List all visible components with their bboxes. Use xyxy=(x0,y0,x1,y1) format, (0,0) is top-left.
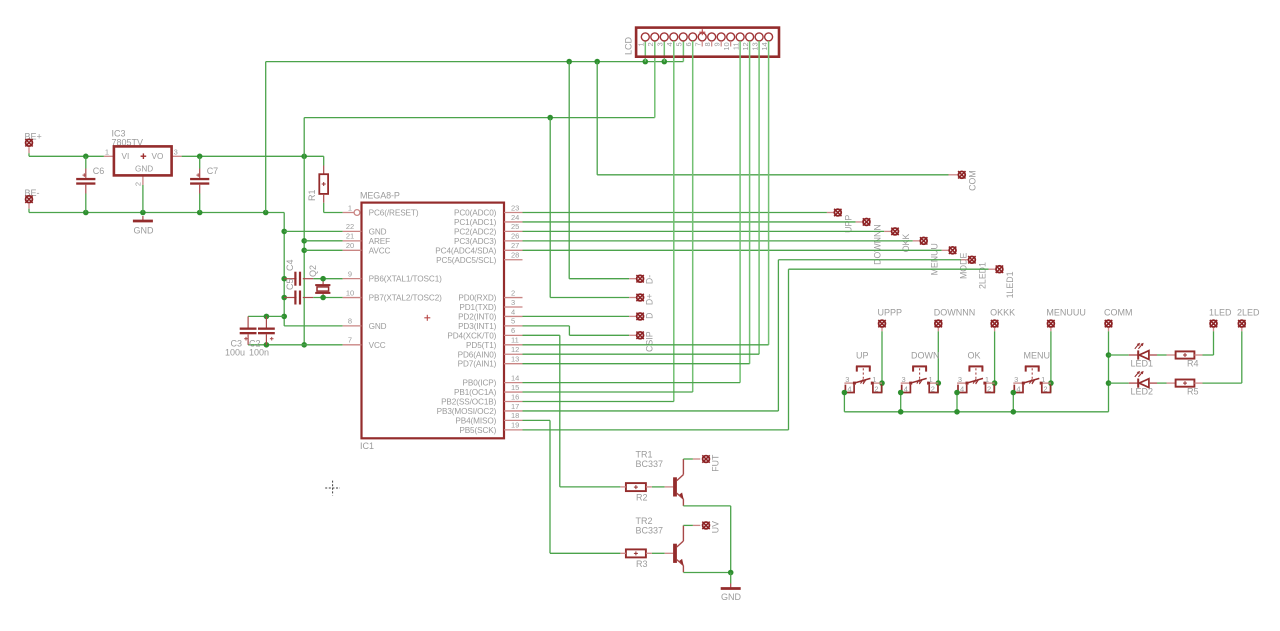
wire MENUU xyxy=(523,240,913,242)
junction C2 bottom xyxy=(264,342,270,348)
svg-text:C7: C7 xyxy=(207,166,219,176)
svg-text:PB1(OC1A): PB1(OC1A) xyxy=(454,388,497,397)
svg-text:R3: R3 xyxy=(636,559,648,569)
svg-text:D: D xyxy=(645,313,655,319)
junction GND C4 xyxy=(281,276,287,282)
junction Q2 bottom xyxy=(320,295,326,301)
svg-text:100n: 100n xyxy=(249,348,269,358)
transistor TR2 BC337 xyxy=(665,552,674,554)
wire 1LED to R4 xyxy=(1213,331,1215,355)
svg-text:5: 5 xyxy=(674,42,683,46)
svg-text:R1: R1 xyxy=(307,189,317,201)
svg-text:PD2(INT0): PD2(INT0) xyxy=(458,312,497,321)
wire D from pin4 xyxy=(523,315,630,317)
diode LED1 xyxy=(1109,354,1129,356)
LCD pad 1 xyxy=(641,33,649,41)
junction GND C5 xyxy=(281,295,287,301)
IC1 pin 3 PD1(TXD) xyxy=(504,306,523,308)
svg-text:OK: OK xyxy=(968,351,981,361)
svg-text:1: 1 xyxy=(348,203,352,212)
svg-text:IC1: IC1 xyxy=(360,441,374,451)
svg-text:R5: R5 xyxy=(1187,387,1199,397)
svg-text:17: 17 xyxy=(511,402,519,411)
svg-text:BC337: BC337 xyxy=(636,459,664,469)
wire LCD12 to pin13 xyxy=(749,41,751,364)
svg-text:4: 4 xyxy=(1016,385,1020,394)
IC1 pin 14 PB0(ICP) xyxy=(504,382,523,384)
wire LCD6 to pin15 xyxy=(692,41,694,392)
capacitor C2 100n xyxy=(265,316,267,327)
wire R3 to TR2 base xyxy=(652,552,665,554)
junction AREF xyxy=(301,238,307,244)
LCD pad 9 xyxy=(717,33,725,41)
IC1 pin 21 AREF xyxy=(343,240,362,242)
wire button common rail xyxy=(844,411,1108,413)
svg-text:15: 15 xyxy=(511,383,519,392)
wire LCD pin5 drop xyxy=(682,41,684,62)
svg-text:7: 7 xyxy=(348,336,352,345)
svg-text:3: 3 xyxy=(845,375,849,384)
junction +5V node xyxy=(301,154,307,160)
svg-text:4: 4 xyxy=(847,385,851,394)
svg-text:3: 3 xyxy=(1014,375,1018,384)
resistor R2 xyxy=(626,483,646,491)
pad UPP xyxy=(827,212,834,214)
junction GND C2C3 xyxy=(281,314,287,320)
svg-text:12: 12 xyxy=(511,345,519,354)
svg-text:14: 14 xyxy=(760,42,769,50)
junction VOUT C7 xyxy=(197,154,203,160)
IC1 pin 24 PC1(ADC1) xyxy=(504,221,523,223)
wire TR2 emitter xyxy=(683,572,730,574)
junction OK pin4 xyxy=(954,390,960,396)
junction rail OK xyxy=(954,409,960,415)
junction rail DOWN xyxy=(898,409,904,415)
wire LCD pin3 drop xyxy=(663,41,665,62)
junction UPPP pin1 xyxy=(879,380,885,386)
svg-text:BC337: BC337 xyxy=(636,525,664,535)
svg-text:6: 6 xyxy=(684,42,693,46)
wire D+ xyxy=(549,118,551,298)
svg-text:13: 13 xyxy=(511,355,519,364)
wire VIN rail xyxy=(29,155,104,157)
svg-text:13: 13 xyxy=(750,42,759,50)
svg-text:28: 28 xyxy=(511,251,519,260)
svg-text:PB3(MOSI/OC2): PB3(MOSI/OC2) xyxy=(437,407,497,416)
wire TR1 collector to FUT xyxy=(683,458,693,460)
pad UV xyxy=(693,524,700,526)
LCD pad 4 xyxy=(670,33,678,41)
svg-text:VCC: VCC xyxy=(369,341,386,350)
svg-text:GND: GND xyxy=(369,227,387,236)
crystal Q2 xyxy=(322,279,324,285)
junction OKKK pin1 xyxy=(992,380,998,386)
wire OKK xyxy=(523,230,885,232)
svg-text:19: 19 xyxy=(511,421,519,430)
junction DOWNNN pin1 xyxy=(936,380,942,386)
junction LCD pin3 xyxy=(662,59,668,65)
pad MODE xyxy=(942,249,949,251)
svg-text:PB7(XTAL2/TOSC2): PB7(XTAL2/TOSC2) xyxy=(369,294,443,303)
svg-text:C5: C5 xyxy=(285,278,295,290)
svg-text:10: 10 xyxy=(346,288,354,297)
junction DOWN pin4 xyxy=(898,390,904,396)
wire TR1 emitter rail xyxy=(683,505,730,507)
capacitor C5 xyxy=(284,297,296,299)
LCD pad 13 xyxy=(755,33,763,41)
junction GND pin22 xyxy=(281,229,287,235)
svg-text:COMM: COMM xyxy=(1104,308,1133,318)
svg-text:3: 3 xyxy=(902,375,906,384)
svg-text:11: 11 xyxy=(731,42,740,50)
svg-text:18: 18 xyxy=(511,411,519,420)
LCD pad 12 xyxy=(746,33,754,41)
svg-text:MENUUU: MENUUU xyxy=(1046,308,1086,318)
IC1 pin 27 PC4(ADC4/SDA) xyxy=(504,249,523,251)
svg-text:2: 2 xyxy=(931,385,935,394)
svg-text:4: 4 xyxy=(960,385,964,394)
IC1 pin 13 PD7(AIN1) xyxy=(504,363,523,365)
svg-text:PD3(INT1): PD3(INT1) xyxy=(458,322,497,331)
svg-text:2LED: 2LED xyxy=(1237,308,1260,318)
svg-text:1: 1 xyxy=(985,375,989,384)
wire LCD11 to pin14 xyxy=(739,41,741,383)
IC1 pin 7 VCC xyxy=(343,344,362,346)
IC1 pin 10 PB7(XTAL2/TOSC2) xyxy=(343,297,362,299)
junction LCD pin1 xyxy=(643,59,649,65)
wire UPPP to switch xyxy=(881,331,883,392)
capacitor C3 100u xyxy=(247,316,249,327)
ground symbol GND (IC3) xyxy=(142,216,144,221)
LCD pad 8 xyxy=(708,33,716,41)
svg-text:COM: COM xyxy=(967,170,977,191)
svg-text:2: 2 xyxy=(134,182,143,186)
wire MODE xyxy=(523,249,942,251)
svg-text:GND: GND xyxy=(369,322,387,331)
wire TR2 collector to UV xyxy=(683,524,693,526)
junction emitter GND xyxy=(728,570,734,576)
diode LED2 xyxy=(1109,382,1129,384)
svg-text:D+: D+ xyxy=(645,294,655,306)
wire OK pin4 down xyxy=(956,393,958,412)
svg-text:100u: 100u xyxy=(225,348,245,358)
wire C2C3 top link xyxy=(248,315,284,317)
junction C2 top xyxy=(264,314,270,320)
wire COMM column xyxy=(1108,331,1110,412)
wire OKKK to switch xyxy=(994,331,996,392)
svg-text:UPPP: UPPP xyxy=(878,308,903,318)
junction MENUUU pin1 xyxy=(1048,380,1054,386)
svg-text:1LED: 1LED xyxy=(1209,308,1232,318)
pad 2LED1 xyxy=(961,259,968,261)
wire DOWN pin4 down xyxy=(900,393,902,412)
IC1 pin 9 PB6(XTAL1/TOSC1) xyxy=(343,278,362,280)
svg-text:2: 2 xyxy=(1043,385,1047,394)
svg-text:1: 1 xyxy=(872,375,876,384)
svg-text:6: 6 xyxy=(511,326,515,335)
svg-text:14: 14 xyxy=(511,373,519,382)
wire pin18 to R3 xyxy=(523,419,551,421)
svg-text:4: 4 xyxy=(665,42,674,46)
svg-text:PD6(AIN0): PD6(AIN0) xyxy=(458,350,497,359)
svg-text:FUT: FUT xyxy=(710,454,720,472)
junction +5V D+ branch xyxy=(547,115,553,121)
svg-text:LED2: LED2 xyxy=(1131,387,1154,397)
wire LCD14 to pin11 xyxy=(768,41,770,345)
svg-text:16: 16 xyxy=(511,392,519,401)
IC1 pin 8 GND xyxy=(343,325,362,327)
wire pin6 to R2 xyxy=(523,334,560,336)
svg-text:PB2(SS/OC1B): PB2(SS/OC1B) xyxy=(441,398,497,407)
junction COMM LED1 xyxy=(1106,352,1112,358)
svg-text:PC1(ADC1): PC1(ADC1) xyxy=(454,218,497,227)
wire LCD pin2 drop xyxy=(654,41,656,118)
svg-text:1: 1 xyxy=(105,148,109,157)
svg-text:PD1(TXD): PD1(TXD) xyxy=(459,303,496,312)
pad COM xyxy=(949,174,959,176)
svg-text:MENU: MENU xyxy=(1024,351,1051,361)
svg-text:10: 10 xyxy=(722,42,731,50)
svg-text:VI: VI xyxy=(122,152,130,161)
junction AVCC xyxy=(301,248,307,254)
svg-text:8: 8 xyxy=(348,317,352,326)
svg-text:1: 1 xyxy=(637,42,646,46)
ground symbol GND (TR2) xyxy=(730,584,732,589)
wire R2 to TR1 base xyxy=(652,486,665,488)
pad D xyxy=(629,315,636,317)
svg-text:GND: GND xyxy=(135,165,153,174)
svg-text:PD7(AIN1): PD7(AIN1) xyxy=(458,360,497,369)
IC1 pin 19 PB5(SCK) xyxy=(504,429,523,431)
IC1 pin 4 PD2(INT0) xyxy=(504,315,523,317)
svg-text:VO: VO xyxy=(152,152,164,161)
wire AREF link xyxy=(304,240,343,242)
LCD pad 10 xyxy=(727,33,735,41)
junction GND LCD-branch xyxy=(263,210,269,216)
wire to GND symbol xyxy=(730,573,732,584)
wire LCD4 to pin16 xyxy=(673,41,675,402)
wire MENU pin4 down xyxy=(1012,393,1014,412)
svg-text:PD0(RXD): PD0(RXD) xyxy=(458,294,496,303)
svg-text:3: 3 xyxy=(511,298,515,307)
svg-text:4: 4 xyxy=(511,307,515,316)
LCD pad 7 xyxy=(698,33,706,41)
svg-text:21: 21 xyxy=(346,232,354,241)
sheet origin crosshair xyxy=(325,487,340,489)
pad 1LED1 xyxy=(989,268,996,270)
junction UP pin4 xyxy=(842,390,848,396)
IC1 pin 26 PC3(ADC3) xyxy=(504,240,523,242)
wire +5V line xyxy=(304,117,655,119)
svg-text:3: 3 xyxy=(958,375,962,384)
svg-text:7: 7 xyxy=(693,42,702,46)
wire LCD13 to pin12 xyxy=(758,41,760,354)
svg-text:23: 23 xyxy=(511,203,519,212)
svg-text:11: 11 xyxy=(511,336,519,345)
IC1 pin 6 PD4(XCK/T0) xyxy=(504,334,523,336)
IC1 pin 17 PB3(MOSI/OC2) xyxy=(504,410,523,412)
junction LCD GND D- branch xyxy=(566,59,572,65)
pad FUT xyxy=(693,458,700,460)
LCD pad 2 xyxy=(651,33,659,41)
svg-text:UPP: UPP xyxy=(844,215,854,233)
svg-text:20: 20 xyxy=(346,241,354,250)
wire R2 leads xyxy=(620,486,626,488)
svg-text:PD4(XCK/T0): PD4(XCK/T0) xyxy=(447,331,496,340)
svg-text:1LED1: 1LED1 xyxy=(1005,271,1015,298)
junction VIN C6 xyxy=(83,154,89,160)
wire UP pin4 down xyxy=(843,393,845,412)
IC1 pin 22 GND xyxy=(343,230,362,232)
wire R3 leads xyxy=(620,552,626,554)
svg-text:5: 5 xyxy=(511,317,515,326)
svg-text:9: 9 xyxy=(712,42,721,46)
svg-text:PB0(ICP): PB0(ICP) xyxy=(463,379,497,388)
svg-text:UP: UP xyxy=(856,351,869,361)
svg-text:27: 27 xyxy=(511,241,519,250)
svg-text:PB4(MISO): PB4(MISO) xyxy=(455,416,496,425)
IC1 pin 5 PD3(INT1) xyxy=(504,325,523,327)
wire D- xyxy=(568,62,570,279)
svg-text:LED1: LED1 xyxy=(1131,359,1154,369)
LCD pad 5 xyxy=(679,33,687,41)
LCD pad 14 xyxy=(765,33,773,41)
resistor R5 xyxy=(1167,382,1176,384)
resistor R3 xyxy=(626,549,646,557)
wire GND to LCD net xyxy=(265,62,267,213)
IC1 pin 1 PC6(/RESET) xyxy=(343,212,354,214)
IC1 pin 28 PC5(ADC5/SCL) xyxy=(504,259,523,261)
capacitor C7 xyxy=(199,156,201,168)
wire LCD pin1 drop xyxy=(644,41,646,62)
svg-text:AVCC: AVCC xyxy=(369,246,391,255)
IC1 pin 11 PD5(T1) xyxy=(504,344,523,346)
IC1 pin 12 PD6(AIN0) xyxy=(504,353,523,355)
svg-text:9: 9 xyxy=(348,269,352,278)
svg-text:PC5(ADC5/SCL): PC5(ADC5/SCL) xyxy=(436,256,496,265)
svg-text:UV: UV xyxy=(710,521,720,533)
transistor TR1 BC337 xyxy=(665,486,674,488)
svg-text:DOWN: DOWN xyxy=(911,351,940,361)
wire DOWNNN xyxy=(523,221,856,223)
wire GND branch column xyxy=(283,213,285,326)
wire GND rail xyxy=(29,212,284,214)
IC1 pin 15 PB1(OC1A) xyxy=(504,391,523,393)
svg-text:PB5(SCK): PB5(SCK) xyxy=(459,426,496,435)
wire AVCC link xyxy=(304,249,343,251)
svg-text:PB6(XTAL1/TOSC1): PB6(XTAL1/TOSC1) xyxy=(369,275,443,284)
IC1 pin 25 PC2(ADC2) xyxy=(504,230,523,232)
svg-text:MODE: MODE xyxy=(958,252,968,279)
svg-text:3: 3 xyxy=(174,148,178,157)
IC1 pin 2 PD0(RXD) xyxy=(504,297,523,299)
junction GND IC3 xyxy=(140,210,146,216)
junction COMM LED2 xyxy=(1106,380,1112,386)
junction Q2 top xyxy=(320,276,326,282)
wire UPP xyxy=(523,212,827,214)
svg-text:GND: GND xyxy=(134,226,155,236)
svg-text:PC3(ADC3): PC3(ADC3) xyxy=(454,237,497,246)
junction GND C6 xyxy=(83,210,89,216)
svg-text:2: 2 xyxy=(874,385,878,394)
svg-text:2: 2 xyxy=(511,288,515,297)
LCD pad 11 xyxy=(736,33,744,41)
svg-text:PD5(T1): PD5(T1) xyxy=(466,341,497,350)
IC1 pin 23 PC0(ADC0) xyxy=(504,212,523,214)
wire GND pin22 link xyxy=(284,230,343,232)
svg-text:12: 12 xyxy=(741,42,750,50)
wire DOWNNN to switch xyxy=(937,331,939,392)
svg-text:1: 1 xyxy=(1041,375,1045,384)
wire 1LED1 from pin19 xyxy=(523,429,789,431)
LCD pad 6 xyxy=(689,33,697,41)
pad OKK xyxy=(884,230,891,232)
svg-text:24: 24 xyxy=(511,213,519,222)
wire CSIP from pin5 xyxy=(523,325,570,327)
svg-text:DOWNNN: DOWNNN xyxy=(872,224,882,265)
svg-text:26: 26 xyxy=(511,232,519,241)
connector LCD box xyxy=(636,28,779,57)
junction MENU pin4 xyxy=(1011,390,1017,396)
svg-text:DOWNNN: DOWNNN xyxy=(934,308,976,318)
svg-text:1: 1 xyxy=(929,375,933,384)
wire COM xyxy=(596,62,598,175)
svg-text:PC6(/RESET): PC6(/RESET) xyxy=(369,209,419,218)
pad DOWNNN xyxy=(856,221,863,223)
IC1 pin 16 PB2(SS/OC1B) xyxy=(504,401,523,403)
pad D+ xyxy=(629,297,636,299)
svg-text:LCD: LCD xyxy=(624,37,634,56)
svg-text:AREF: AREF xyxy=(369,237,391,246)
svg-text:OKKK: OKKK xyxy=(990,308,1015,318)
resistor R4 xyxy=(1167,354,1176,356)
svg-text:PC2(ADC2): PC2(ADC2) xyxy=(454,227,497,236)
wire 2LED1 from pin17 xyxy=(523,410,779,412)
svg-text:C4: C4 xyxy=(285,259,295,271)
svg-text:22: 22 xyxy=(346,222,354,231)
svg-text:PC4(ADC4/SDA): PC4(ADC4/SDA) xyxy=(435,246,496,255)
wire 2LED to R5 xyxy=(1241,331,1243,383)
svg-text:2: 2 xyxy=(987,385,991,394)
svg-text:3: 3 xyxy=(655,42,664,46)
IC1 pin 18 PB4(MISO) xyxy=(504,419,523,421)
pad D- xyxy=(629,278,636,280)
LCD pad 3 xyxy=(660,33,668,41)
svg-text:2: 2 xyxy=(646,42,655,46)
svg-text:GND: GND xyxy=(721,592,742,602)
svg-text:PC0(ADC0): PC0(ADC0) xyxy=(454,209,497,218)
capacitor C6 xyxy=(85,156,87,168)
wire MENUUU to switch xyxy=(1050,331,1052,392)
LCD origin cross xyxy=(699,31,705,33)
junction LCD GND COM branch xyxy=(594,59,600,65)
pad CSIP xyxy=(629,334,636,336)
svg-text:R4: R4 xyxy=(1187,359,1199,369)
junction GND C7 xyxy=(197,210,203,216)
junction rail MENU xyxy=(1011,409,1017,415)
svg-text:MEGA8-P: MEGA8-P xyxy=(360,191,400,201)
svg-text:Q2: Q2 xyxy=(308,265,318,277)
svg-text:R2: R2 xyxy=(636,493,648,503)
wire VCC line xyxy=(248,344,343,346)
capacitor C4 xyxy=(284,278,296,280)
resistor R1 xyxy=(323,156,325,165)
svg-text:C6: C6 xyxy=(93,166,105,176)
junction VCC line xyxy=(301,342,307,348)
svg-text:2LED1: 2LED1 xyxy=(978,262,988,289)
svg-text:CSIP: CSIP xyxy=(645,331,655,352)
svg-text:OKK: OKK xyxy=(901,234,911,253)
